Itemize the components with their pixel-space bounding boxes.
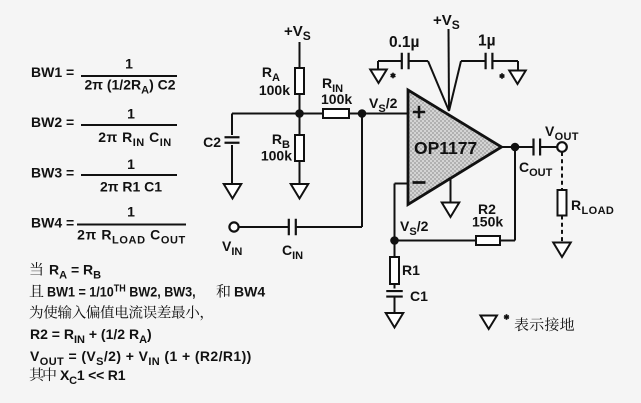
wire op-amp output to node [502, 146, 516, 148]
formula BW3 [31, 156, 177, 195]
power +VS (op-amp supply) [433, 12, 460, 32]
svg-text:1: 1 [125, 56, 133, 72]
op-amp U1 OP1177 [408, 90, 502, 205]
node VS/2 feedback junction [390, 218, 428, 245]
wire RLOAD to ground (dashed) [561, 216, 563, 243]
ground under op-amp [442, 203, 460, 218]
capacitor C3 0.1u bypass [378, 34, 428, 70]
svg-text:BW3 =: BW3 = [31, 165, 74, 181]
note R2 formula [30, 326, 152, 346]
wire C1 to ground [394, 297, 396, 314]
wire op-amp V- pin to ground [450, 179, 452, 203]
wire R2 to output riser [500, 240, 515, 242]
terminal VOUT [545, 123, 579, 152]
svg-text:OP1177: OP1177 [414, 138, 477, 158]
power +VS (left rail) [284, 23, 311, 43]
ground under C2 [224, 184, 242, 199]
capacitor C4 1u bypass [461, 33, 518, 71]
wire R1 to C1 [394, 284, 396, 289]
wire divider node to C2 [232, 113, 300, 115]
wire node to R2 [395, 240, 477, 242]
ground under 0.1u cap [370, 70, 395, 84]
node VS/2 at +input [358, 95, 398, 118]
capacitor CIN [282, 219, 303, 262]
node VS/2 divider junction [295, 109, 304, 118]
capacitor C2 [203, 114, 239, 185]
note XC1 condition [30, 367, 126, 387]
svg-text:R1: R1 [402, 262, 420, 278]
wire CIN to riser [296, 226, 362, 228]
formula BW2 [31, 106, 177, 149]
ground under RLOAD [553, 243, 571, 258]
wire COUT to VOUT terminal [540, 146, 557, 148]
svg-text:0.1µ: 0.1µ [389, 34, 419, 51]
resistor RIN [321, 75, 352, 118]
wire VIN to CIN [239, 226, 288, 228]
wire RB to ground [299, 161, 301, 184]
svg-text:C1: C1 [410, 288, 428, 304]
note condition BW1 [30, 283, 266, 300]
wire +VS to RA [299, 42, 301, 68]
resistor RB [261, 131, 304, 164]
svg-text:100k: 100k [259, 82, 290, 98]
wire node to R1 [394, 241, 396, 258]
svg-text:BW4 =: BW4 = [31, 215, 74, 231]
wire RIN to node VS/2 [349, 113, 362, 115]
wire 0.1u cap to V+ pin [428, 61, 449, 111]
terminal VIN [222, 222, 242, 257]
resistor RLOAD [558, 190, 615, 217]
wire -input to feedback riser [395, 183, 409, 185]
resistor RA [259, 64, 304, 98]
svg-text:1: 1 [127, 156, 135, 172]
wire 1u cap to V+ pin [449, 61, 461, 111]
note minimize bias current [30, 305, 203, 320]
svg-text:BW1 =: BW1 = [31, 64, 74, 80]
wire node to RB [299, 114, 301, 136]
svg-text:2π R1 C1: 2π R1 C1 [100, 179, 162, 195]
svg-text:1µ: 1µ [478, 33, 496, 50]
note condition RA=RB [30, 262, 101, 282]
capacitor COUT [519, 139, 553, 179]
wire node to +input [362, 113, 408, 115]
svg-text:C2: C2 [203, 134, 221, 150]
capacitor C1 [386, 288, 428, 304]
svg-text:BW2 =: BW2 = [31, 114, 74, 130]
wire VOUT to RLOAD (dashed) [561, 152, 563, 190]
svg-text:1: 1 [127, 204, 135, 220]
svg-text:100k: 100k [321, 91, 352, 107]
note VOUT formula [30, 348, 252, 368]
ground under 1u cap [500, 71, 526, 85]
wire RA to node [299, 94, 301, 114]
svg-text:150k: 150k [472, 214, 503, 230]
formula BW1 [31, 56, 177, 97]
wire riser to VS/2 node [361, 114, 363, 228]
svg-text:100k: 100k [261, 148, 292, 164]
wire node to COUT [515, 146, 534, 148]
ground under C1 [386, 313, 404, 328]
svg-text:BW4: BW4 [234, 284, 265, 300]
ground under RB [291, 184, 309, 199]
resistor R1 [390, 257, 420, 284]
node output junction [511, 143, 520, 152]
resistor R2 [472, 201, 503, 245]
svg-text:1: 1 [127, 106, 135, 122]
wire output riser up [514, 147, 516, 241]
wire +VS to op-amp V+ pin [448, 29, 451, 111]
legend ground symbol [480, 314, 508, 329]
formula BW4 [31, 204, 186, 247]
wire feedback riser down [394, 184, 396, 241]
legend text [515, 317, 575, 331]
wire node to RIN [300, 113, 324, 115]
